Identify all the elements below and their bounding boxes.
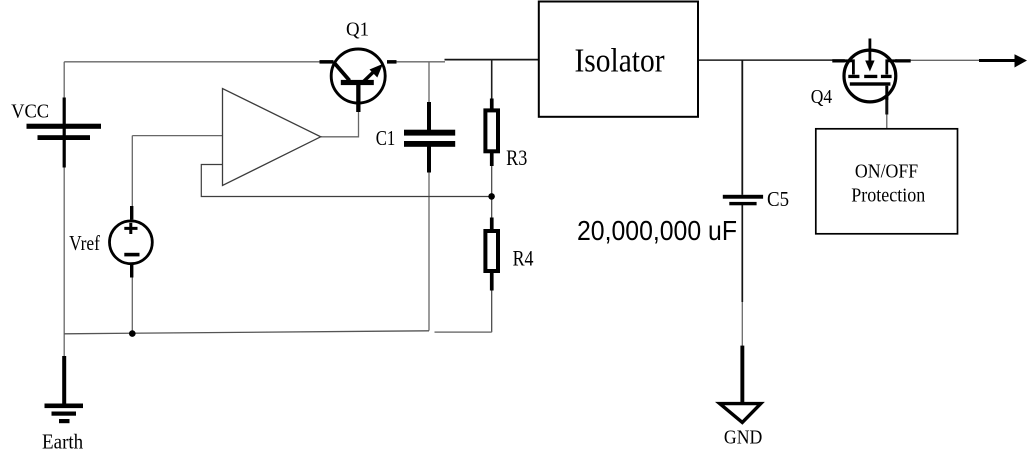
svg-text:ON/OFF: ON/OFF xyxy=(855,162,918,183)
svg-text:C5: C5 xyxy=(767,187,789,211)
svg-text:R4: R4 xyxy=(513,246,534,271)
svg-text:C1: C1 xyxy=(376,126,396,150)
svg-text:Vref: Vref xyxy=(69,231,100,255)
svg-text:Earth: Earth xyxy=(42,429,83,453)
svg-text:Isolator: Isolator xyxy=(575,42,666,79)
svg-text:Q1: Q1 xyxy=(346,19,369,40)
svg-text:Q4: Q4 xyxy=(811,86,832,108)
svg-text:Protection: Protection xyxy=(851,185,925,206)
svg-text:R3: R3 xyxy=(506,145,527,170)
svg-text:GND: GND xyxy=(724,428,762,449)
svg-text:20,000,000 uF: 20,000,000 uF xyxy=(577,215,737,246)
svg-text:VCC: VCC xyxy=(11,101,49,123)
